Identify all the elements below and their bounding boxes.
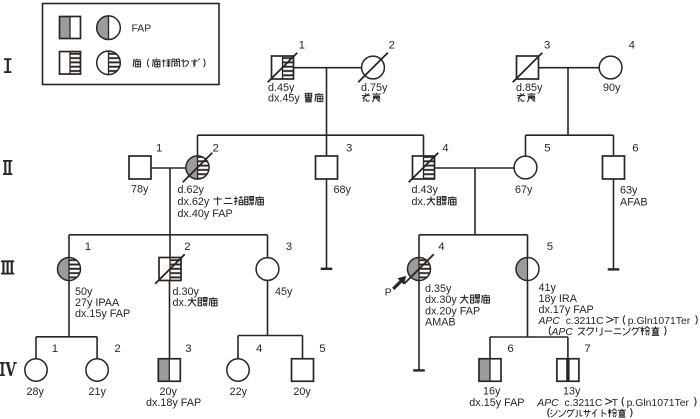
text IV-2 details bbox=[89, 386, 107, 398]
text IV-7 details bbox=[536, 386, 696, 418]
svg-text:dx.30y: dx.30y bbox=[425, 294, 457, 306]
legend circle cancer bbox=[97, 51, 121, 75]
individual IV-7 square (presymptomatic carrier) bbox=[557, 359, 579, 382]
legend label FAP bbox=[132, 23, 152, 34]
label I-3 number bbox=[544, 40, 550, 52]
slash deceased III-2 bbox=[155, 254, 185, 284]
wire drop to III-3 bbox=[267, 235, 269, 258]
svg-text:5: 5 bbox=[544, 142, 550, 154]
svg-text:dx.18y FAP: dx.18y FAP bbox=[146, 397, 201, 409]
wire descender II-6 no offspring bbox=[613, 179, 615, 269]
individual I-2 circle (deceased) bbox=[362, 56, 385, 79]
svg-text:dx.62y: dx.62y bbox=[178, 196, 210, 208]
svg-text:2: 2 bbox=[389, 40, 395, 52]
individual IV-5 square bbox=[292, 359, 314, 382]
svg-text:dx.: dx. bbox=[412, 196, 426, 208]
label IV-7 number bbox=[584, 343, 590, 355]
text IV-6 details bbox=[469, 386, 524, 409]
svg-text:dx.: dx. bbox=[173, 297, 187, 309]
svg-text:1: 1 bbox=[85, 241, 91, 253]
svg-text:1: 1 bbox=[299, 40, 305, 52]
wire couple I-1 I-2 bbox=[294, 67, 362, 69]
proband arrow III-4 bbox=[393, 276, 406, 289]
text II-3 details bbox=[334, 184, 352, 196]
individual IV-1 circle bbox=[25, 359, 47, 381]
sibship line gen IV middle bbox=[238, 335, 303, 337]
svg-text:68y: 68y bbox=[334, 184, 352, 196]
individual IV-3 square (FAP) bbox=[158, 359, 180, 382]
svg-text:APC: APC bbox=[538, 316, 561, 327]
text IV-4 details bbox=[230, 386, 248, 398]
wire drop to II-2 bbox=[197, 135, 199, 156]
label II-2 number bbox=[213, 142, 219, 154]
label I-4 number bbox=[629, 40, 635, 52]
wire drop to III-2 bbox=[169, 235, 171, 258]
individual II-4 square (cancer, deceased) bbox=[413, 156, 435, 179]
svg-text:20y: 20y bbox=[293, 386, 311, 398]
label IV-5 number bbox=[319, 343, 325, 355]
wire drop to IV-5 bbox=[302, 336, 304, 359]
label IV-2 number bbox=[114, 343, 120, 355]
label III-3 number bbox=[286, 241, 292, 253]
svg-text:2: 2 bbox=[184, 241, 190, 253]
wire drop to II-5 bbox=[525, 135, 527, 156]
svg-text:FAP: FAP bbox=[132, 23, 152, 34]
svg-text:7: 7 bbox=[584, 343, 590, 355]
individual II-2 circle (FAP+cancer, deceased) bbox=[186, 156, 209, 179]
no-offspring bar II-3 bbox=[321, 268, 333, 270]
slash deceased I-2 bbox=[358, 53, 388, 83]
text I-3 details bbox=[516, 82, 543, 102]
svg-text:3: 3 bbox=[185, 343, 191, 355]
svg-text:63y: 63y bbox=[620, 184, 638, 196]
individual III-4 circle (FAP+cancer, deceased, proband) bbox=[408, 258, 431, 281]
text IV-3 details bbox=[146, 386, 201, 409]
legend label cancer (any type) bbox=[133, 59, 205, 68]
text IV-5 details bbox=[293, 386, 311, 398]
wire couple II-1 II-2 bbox=[151, 167, 186, 169]
svg-text:1: 1 bbox=[52, 343, 58, 355]
svg-text:d.85y: d.85y bbox=[516, 82, 543, 94]
svg-text:AMAB: AMAB bbox=[425, 316, 456, 328]
wire drop couple I-3/I-4 bbox=[567, 68, 569, 136]
wire drop to II-6 bbox=[613, 135, 615, 156]
individual I-1 square (cancer, deceased) bbox=[272, 56, 294, 79]
svg-text:c.3211C: c.3211C bbox=[565, 398, 603, 409]
svg-text:3: 3 bbox=[286, 241, 292, 253]
wire drop to II-4 bbox=[423, 135, 425, 156]
legend square FAP bbox=[60, 17, 81, 39]
svg-text:90y: 90y bbox=[603, 82, 621, 94]
label II-6 number bbox=[632, 142, 638, 154]
legend box bbox=[43, 4, 220, 85]
text III-5 details bbox=[538, 282, 698, 338]
svg-text:6: 6 bbox=[632, 142, 638, 154]
svg-text:APC: APC bbox=[536, 398, 559, 409]
label III-2 number bbox=[184, 241, 190, 253]
wire drop to III-1 bbox=[68, 235, 70, 258]
svg-text:APC: APC bbox=[551, 327, 574, 338]
svg-text:dx.40y FAP: dx.40y FAP bbox=[178, 208, 233, 220]
svg-text:6: 6 bbox=[507, 343, 513, 355]
svg-text:4: 4 bbox=[256, 343, 262, 355]
text I-1 details bbox=[268, 82, 323, 105]
sibship line gen III left bbox=[69, 234, 268, 236]
individual II-5 circle bbox=[514, 156, 537, 179]
svg-text:1: 1 bbox=[156, 142, 162, 154]
svg-text:d.43y: d.43y bbox=[412, 184, 439, 196]
svg-text:d.62y: d.62y bbox=[178, 184, 205, 196]
wire drop to IV-6 bbox=[489, 337, 491, 359]
text II-4 details bbox=[412, 184, 457, 208]
text II-5 details bbox=[515, 184, 533, 196]
sibship line gen IV left bbox=[36, 336, 97, 338]
text I-2 details bbox=[361, 82, 388, 102]
svg-text:3: 3 bbox=[346, 142, 352, 154]
slash deceased II-2 bbox=[183, 153, 213, 183]
text I-4 details bbox=[603, 82, 621, 94]
svg-text:dx.15y FAP: dx.15y FAP bbox=[75, 308, 130, 320]
wire drop to IV-2 bbox=[96, 337, 98, 359]
text III-4 details bbox=[425, 283, 490, 328]
text II-6 details bbox=[620, 184, 648, 208]
wire drop couple II-1/II-2 bbox=[169, 168, 171, 235]
label IV-6 number bbox=[507, 343, 513, 355]
sibship line gen II left bbox=[198, 134, 424, 136]
svg-text:4: 4 bbox=[442, 142, 448, 154]
text III-1 details bbox=[75, 286, 130, 320]
generation label II bbox=[3, 160, 12, 175]
wire drop to II-3 bbox=[326, 135, 328, 156]
generation label IV bbox=[0, 362, 17, 376]
svg-text:T: T bbox=[613, 316, 620, 327]
individual II-3 square bbox=[316, 156, 338, 179]
legend circle FAP bbox=[97, 16, 121, 40]
individual III-5 circle (FAP) bbox=[516, 258, 539, 281]
generation label III bbox=[1, 260, 14, 274]
generation label I bbox=[4, 58, 11, 73]
svg-text:16y: 16y bbox=[483, 386, 501, 398]
sibship line gen IV right bbox=[490, 336, 568, 338]
svg-text:4: 4 bbox=[629, 40, 635, 52]
individual I-3 square (deceased) bbox=[517, 56, 539, 79]
label I-1 number bbox=[299, 40, 305, 52]
svg-text:2: 2 bbox=[213, 142, 219, 154]
wire descender III-4 no offspring bbox=[418, 280, 420, 370]
individual II-1 square bbox=[129, 156, 151, 179]
label II-3 number bbox=[346, 142, 352, 154]
label II-1 number bbox=[156, 142, 162, 154]
svg-text:AFAB: AFAB bbox=[620, 196, 648, 208]
svg-text:P: P bbox=[385, 288, 392, 299]
svg-text:2: 2 bbox=[114, 343, 120, 355]
wire descender II-3 no offspring bbox=[326, 179, 328, 269]
wire descender III-5 to gen IV bbox=[527, 280, 529, 337]
wire drop to IV-4 bbox=[237, 336, 239, 360]
slash deceased I-3 bbox=[513, 53, 543, 83]
wire drop to IV-1 bbox=[35, 337, 37, 359]
slash deceased II-4 bbox=[409, 153, 439, 183]
svg-text:4: 4 bbox=[438, 241, 444, 253]
svg-text:d.75y: d.75y bbox=[361, 82, 388, 94]
svg-text:5: 5 bbox=[547, 241, 553, 253]
svg-text:5: 5 bbox=[319, 343, 325, 355]
individual III-3 circle bbox=[256, 258, 279, 281]
label III-1 number bbox=[85, 241, 91, 253]
slash deceased I-1 bbox=[268, 53, 298, 83]
svg-text:c.3211C: c.3211C bbox=[566, 316, 604, 327]
label II-5 number bbox=[544, 142, 550, 154]
label IV-1 number bbox=[52, 343, 58, 355]
svg-text:dx.45y: dx.45y bbox=[268, 93, 300, 105]
label II-4 number bbox=[442, 142, 448, 154]
wire drop to III-5 bbox=[527, 235, 529, 258]
wire descender III-2 to IV-3 bbox=[169, 281, 171, 359]
no-offspring bar III-4 bbox=[413, 369, 425, 371]
individual I-4 circle bbox=[599, 56, 622, 79]
text IV-1 details bbox=[27, 386, 45, 398]
label IV-3 number bbox=[185, 343, 191, 355]
individual IV-4 circle bbox=[227, 359, 249, 381]
wire drop to IV-7 bbox=[567, 337, 569, 359]
sibship line gen III right bbox=[419, 234, 528, 236]
svg-text:T: T bbox=[612, 398, 619, 409]
svg-text:28y: 28y bbox=[27, 386, 45, 398]
text II-2 details bbox=[178, 184, 264, 220]
svg-text:13y: 13y bbox=[563, 386, 581, 398]
svg-text:p.Gln1071Ter: p.Gln1071Ter bbox=[628, 316, 691, 327]
svg-text:22y: 22y bbox=[230, 386, 248, 398]
svg-text:dx.17y FAP: dx.17y FAP bbox=[539, 304, 594, 316]
svg-text:78y: 78y bbox=[131, 184, 149, 196]
no-offspring bar II-6 bbox=[608, 268, 620, 270]
wire drop couple I-1/I-2 bbox=[326, 68, 328, 136]
svg-text:67y: 67y bbox=[515, 184, 533, 196]
label I-2 number bbox=[389, 40, 395, 52]
wire descender III-3 to gen IV bbox=[267, 280, 269, 335]
individual IV-2 circle bbox=[86, 359, 108, 381]
wire couple I-3 I-4 bbox=[539, 67, 600, 69]
individual III-2 square (cancer, deceased) bbox=[159, 258, 181, 281]
svg-text:21y: 21y bbox=[89, 386, 107, 398]
label III-5 number bbox=[547, 241, 553, 253]
wire drop to III-4 bbox=[418, 235, 420, 258]
individual IV-6 square (FAP) bbox=[479, 359, 501, 382]
svg-text:45y: 45y bbox=[275, 286, 293, 298]
text III-3 details bbox=[275, 286, 293, 298]
text II-1 details bbox=[131, 184, 149, 196]
legend square cancer bbox=[60, 52, 81, 75]
text III-2 details bbox=[173, 286, 218, 309]
label III-4 number bbox=[438, 241, 444, 253]
svg-text:3: 3 bbox=[544, 40, 550, 52]
individual III-1 circle (FAP+cancer) bbox=[58, 258, 81, 281]
label proband P bbox=[385, 288, 392, 299]
individual II-6 square bbox=[603, 156, 625, 179]
slash deceased III-4 bbox=[404, 254, 434, 284]
wire descender III-1 to gen IV bbox=[68, 280, 70, 336]
wire drop couple II-4/II-5 bbox=[474, 168, 476, 235]
svg-text:20y: 20y bbox=[160, 386, 178, 398]
sibship line gen II right bbox=[526, 134, 614, 136]
svg-text:p.Gln1071Ter: p.Gln1071Ter bbox=[627, 398, 690, 409]
label IV-4 number bbox=[256, 343, 262, 355]
svg-text:dx.15y FAP: dx.15y FAP bbox=[469, 397, 524, 409]
wire couple II-4 II-5 bbox=[435, 167, 515, 169]
